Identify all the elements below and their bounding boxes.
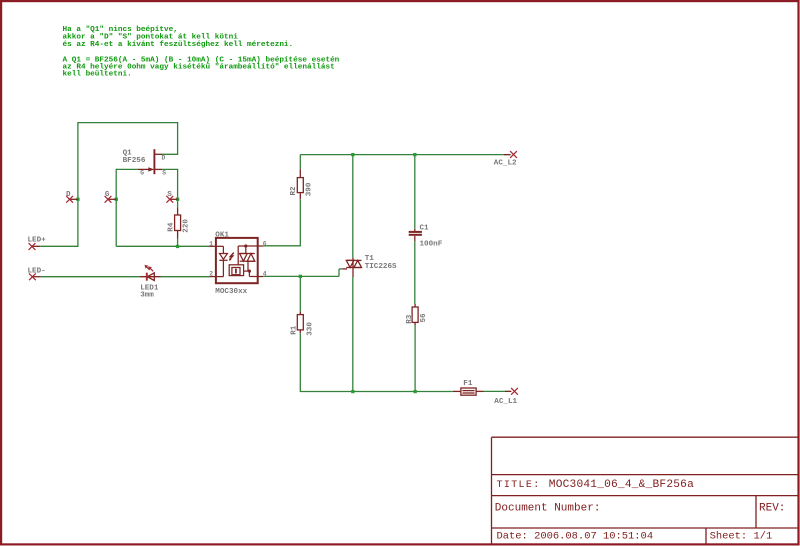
OK1 node dot (248, 270, 251, 273)
OK1 triac bottom drop (247, 261, 249, 271)
note text paragraph 2 (63, 56, 340, 78)
svg-text:G: G (105, 191, 110, 199)
OK1 triac top drop (245, 246, 247, 254)
capacitor C1 bottom stub (414, 236, 416, 241)
wire drain to corner (162, 153, 178, 155)
junction top wire / C1 (413, 153, 416, 156)
svg-text:MOC30xx: MOC30xx (215, 288, 247, 296)
node S stub wire (170, 198, 178, 200)
svg-text:OK1: OK1 (215, 232, 229, 240)
wire LED- horizontal left (41, 276, 140, 278)
wire gate vertical (115, 169, 117, 247)
capacitor C1 top stub (414, 229, 416, 231)
junction R4 bottom (176, 245, 179, 248)
junction node D on left wire (76, 198, 79, 201)
svg-text:3mm: 3mm (140, 292, 154, 300)
junction bottom wire / T1 (351, 390, 354, 393)
title block line below TITLE (492, 495, 798, 497)
svg-text:R1: R1 (291, 325, 299, 335)
wire pin 4 jog vertical (338, 269, 340, 277)
LED1 emission arrowhead 2 (145, 265, 149, 269)
wire source to corner (162, 168, 178, 170)
wire bottom horizontal to F1 (300, 391, 453, 393)
svg-text:6: 6 (263, 240, 267, 247)
title block line above TITLE (492, 474, 798, 476)
OK1 light bolt (230, 253, 234, 260)
triac T1 right triangle (354, 260, 362, 267)
svg-text:100nF: 100nF (420, 240, 443, 248)
resistor R2 bottom stub (299, 193, 301, 200)
wire top loop horizontal (77, 122, 178, 124)
resistor R4 body (175, 215, 181, 231)
svg-text:REV:: REV: (759, 503, 785, 515)
title block REV divider (755, 496, 757, 528)
resistor R1 body (297, 315, 303, 330)
triac T1 main vertical (352, 258, 354, 277)
svg-text:LED-: LED- (28, 267, 46, 275)
LED1 wire segment (140, 276, 161, 278)
wire C1 vertical above (414, 154, 416, 229)
wire R4 bottom to junction (177, 239, 179, 247)
resistor R1 bottom stub (299, 330, 301, 333)
wire vertical to Q1 drain (177, 123, 179, 155)
svg-text:MOC3041_06_4_&_BF256a: MOC3041_06_4_&_BF256a (549, 479, 694, 491)
note text paragraph 1 (63, 26, 294, 49)
wire OK1 pin 4 horizontal (263, 275, 339, 277)
resistor R3 bottom stub (414, 322, 416, 325)
title block outline left (491, 437, 493, 543)
LED1 emission arrow 1 (150, 268, 153, 271)
terminal cross LED- (29, 273, 36, 280)
node G stub wire (108, 198, 116, 200)
OK1 LED cathode bar (219, 259, 227, 261)
OK1 pin4 inner lead (249, 276, 263, 278)
svg-text:Sheet: 1/1: Sheet: 1/1 (710, 531, 773, 543)
svg-text:BF256: BF256 (123, 157, 146, 165)
junction pin4 / R1 (299, 275, 302, 278)
OK1 rail junction dot (244, 244, 247, 247)
node D stub wire (70, 198, 78, 200)
svg-text:56: 56 (420, 313, 428, 323)
svg-text:TITLE:: TITLE: (497, 480, 541, 491)
resistor R3 top stub (414, 304, 416, 307)
LED1 cathode bar (146, 273, 148, 281)
transistor Q1 source pin (154, 168, 162, 170)
OK1 pin6 inner rail (238, 245, 263, 247)
svg-text:és az R4-et a kívánt feszültsé: és az R4-et a kívánt feszültséghez kell … (63, 41, 294, 49)
wire R3 bottom vertical (414, 325, 416, 392)
junction node G on gate wire (115, 198, 118, 201)
terminal cross D (66, 196, 73, 203)
wire R1 top vertical (299, 276, 301, 312)
svg-text:D: D (66, 191, 71, 199)
svg-text:F1: F1 (463, 380, 473, 388)
resistor R4 bottom stub (177, 231, 179, 239)
transistor Q1 drain pin (154, 153, 162, 155)
svg-text:220: 220 (182, 219, 190, 233)
OK1 triac left triangle (240, 254, 248, 262)
fuse F1 right stub (476, 390, 483, 392)
terminal cross G (105, 196, 112, 203)
OK1 triac top edge (240, 253, 255, 255)
wire LED1 to OK1 pin 2 (161, 276, 211, 278)
optocoupler OK1 box (216, 238, 258, 283)
junction top wire / T1 (351, 153, 354, 156)
wire horizontal to OK1 pin 1 (116, 245, 210, 247)
svg-text:R2: R2 (290, 186, 298, 196)
junction node S on source wire (176, 198, 179, 201)
triac T1 left triangle (346, 260, 354, 267)
resistor R1 top stub (299, 312, 301, 315)
resistor R2 body (297, 178, 303, 193)
svg-text:kell beültetni.: kell beültetni. (63, 71, 132, 79)
svg-text:390: 390 (306, 182, 314, 196)
terminal cross S (166, 196, 173, 203)
OK1 pin2 inner lead (210, 276, 224, 278)
svg-text:R4: R4 (167, 222, 175, 232)
wire left vertical (LED+ net) (77, 123, 79, 247)
svg-text:Document Number:: Document Number: (495, 503, 601, 515)
resistor R3 body (412, 307, 418, 322)
svg-text:G: G (140, 170, 144, 177)
svg-text:C1: C1 (420, 224, 430, 232)
LED1 emission arrowhead 1 (148, 266, 152, 270)
fuse F1 inner line upper (462, 390, 474, 392)
wire AC_L2 top horizontal (300, 154, 510, 156)
svg-text:S: S (167, 191, 172, 199)
resistor R2 top stub (299, 169, 301, 177)
transistor Q1 gate arrowhead (148, 167, 154, 171)
wire stub to AC_L1 cross (505, 390, 511, 392)
svg-text:LED+: LED+ (28, 236, 47, 244)
LED+ pin stub (32, 245, 40, 247)
wire stub to AC_L2 cross (504, 154, 511, 156)
OK1 driver to node wire (244, 270, 250, 272)
svg-text:D: D (162, 155, 166, 162)
terminal cross AC_L2 (510, 151, 517, 158)
OK1 LED triangle (220, 254, 228, 260)
OK1 pin1 inner lead (210, 245, 224, 247)
wire F1 to AC_L1 (484, 390, 511, 392)
title block top line (492, 436, 798, 438)
wire gate horizontal to Q1 (116, 168, 138, 170)
wire C1 to R3 vertical (414, 241, 416, 304)
junction bottom wire / R3 (414, 390, 417, 393)
capacitor C1 top plate (409, 231, 422, 233)
LED1 triangle (147, 273, 154, 281)
svg-text:1: 1 (209, 240, 213, 247)
LED- pin stub (33, 276, 41, 278)
svg-text:4: 4 (263, 271, 267, 278)
OK1 rail to driver vertical (237, 246, 239, 265)
OK1 LED cathode drop (222, 260, 224, 276)
wire OK1 pin 6 horizontal (263, 245, 300, 247)
title block line below Document (492, 527, 798, 529)
OK1 driver box outer (229, 265, 243, 276)
triac T1 top edge (346, 259, 361, 261)
svg-text:S: S (162, 170, 166, 177)
OK1 driver box inner (232, 268, 240, 275)
svg-text:330: 330 (306, 322, 314, 336)
OK1 light bolt head (229, 258, 232, 261)
svg-text:Date: 2006.08.07 10:51:04: Date: 2006.08.07 10:51:04 (497, 531, 654, 543)
terminal cross LED+ (29, 243, 36, 250)
svg-text:2: 2 (209, 271, 213, 278)
wire Q1 source vertical upper (177, 169, 179, 207)
triac T1 bottom edge (346, 267, 361, 269)
wire LED+ horizontal (40, 245, 78, 247)
svg-text:AC_L2: AC_L2 (494, 160, 517, 168)
terminal cross AC_L1 (511, 388, 518, 395)
wire R1 bottom vertical (299, 333, 301, 392)
fuse F1 left stub (453, 390, 461, 392)
wire R2 top vertical (299, 155, 301, 170)
wire jog to T1 gate (339, 268, 342, 270)
OK1 triac right triangle (247, 254, 255, 262)
OK1 node drop to pin4 (248, 271, 250, 276)
title block Sheet divider (705, 528, 707, 544)
transistor Q1 channel bar (153, 149, 155, 174)
wire T1 vertical above (352, 154, 354, 258)
OK1 LED anode drop (222, 246, 224, 253)
OK1 triac bottom edge (240, 260, 255, 262)
svg-text:TIC226S: TIC226S (365, 263, 397, 271)
fuse F1 inner line lower (462, 392, 474, 394)
OK1 driver inner mark (235, 269, 237, 274)
capacitor C1 bottom plate (409, 234, 422, 236)
svg-text:AC_L1: AC_L1 (494, 398, 517, 406)
wire T1 vertical below (352, 277, 354, 392)
triac T1 gate stub (342, 268, 347, 270)
transistor Q1 gate pin (138, 168, 149, 170)
svg-text:R3: R3 (406, 314, 414, 324)
fuse F1 body (461, 388, 476, 395)
LED1 emission arrow 2 (146, 267, 149, 270)
wire R2 bottom vertical (299, 199, 301, 246)
resistor R4 top stub (177, 207, 179, 215)
